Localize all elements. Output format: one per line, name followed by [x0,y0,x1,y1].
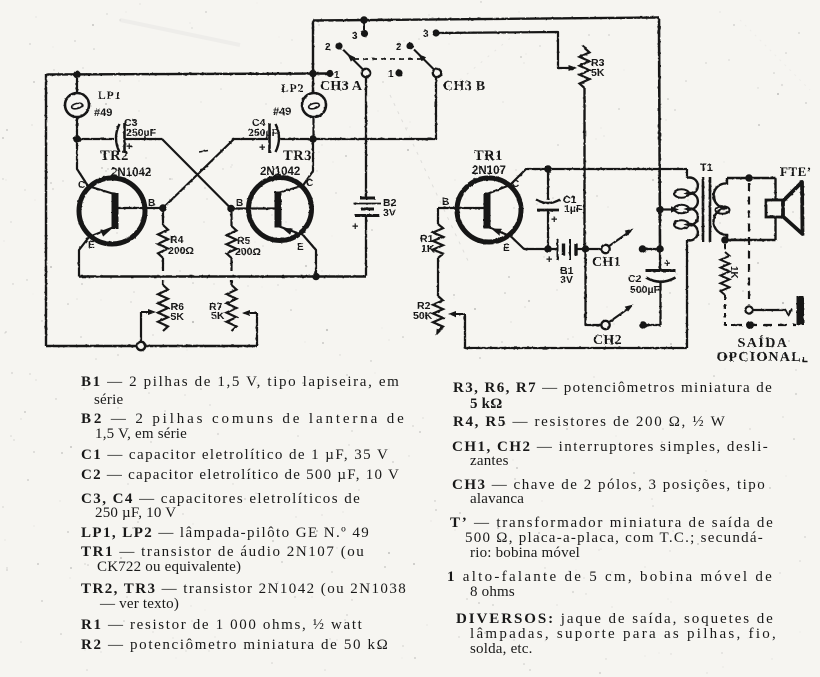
wire: dashed bottom to jack [733,324,796,326]
svg-text:LP1, LP2 — lâmpada-pilôto GE N: LP1, LP2 — lâmpada-pilôto GE N.º 49 [81,525,369,541]
svg-text:LP2: LP2 [281,83,304,95]
svg-text:+: + [352,221,358,233]
wire: top rail from LP2 feed to right corner [313,18,659,21]
svg-text:3V: 3V [383,207,396,219]
svg-text:2N1042: 2N1042 [260,166,300,178]
svg-text:B1 — 2 pilhas de 1,5 V, tipo l: B1 — 2 pilhas de 1,5 V, tipo lapiseira, … [81,374,399,390]
lamp LP2 [302,93,326,139]
node: junction TR2 base [159,204,167,212]
svg-text:OPCIONAL⌞: OPCIONAL⌞ [717,350,810,365]
node: optional output upper contact [745,306,752,313]
svg-text:1: 1 [388,69,394,80]
svg-text:alavanca: alavanca [470,491,524,507]
resistor R5 200 ohm [227,209,237,272]
capacitor C1 1uF [536,169,560,249]
lamp LP1 [65,75,89,140]
wire: TR3 collector node to CH3B wiper [313,77,436,139]
svg-text:DIVERSOS: jaque de saída, soqu: DIVERSOS: jaque de saída, soquetes de [456,611,773,627]
transformer T1 secondary winding [714,178,730,240]
switch CH1 (slide) [589,229,660,254]
svg-text:5K: 5K [211,310,225,322]
svg-text:rio: bobina móvel: rio: bobina móvel [470,545,580,561]
svg-text:FTE’: FTE’ [780,164,812,179]
wire: C4 to TR3 collector node [279,138,313,140]
transformer T1 core [702,177,705,242]
svg-text:+: + [664,258,670,270]
svg-text:200Ω: 200Ω [235,246,261,258]
svg-text:R2 — potenciômetro miniatura d: R2 — potenciômetro miniatura de 50 kΩ [81,637,388,653]
wire: right rail from top corner down to CH1/C2 node [659,19,660,250]
svg-text:250 µF, 10 V: 250 µF, 10 V [95,505,176,521]
wire: bottom-left wiper return [46,345,257,347]
svg-text:série: série [94,392,123,408]
transistor TR3 2N1042 (PNP) [231,178,312,241]
svg-text:R4, R5 — resistores de 200 Ω,: R4, R5 — resistores de 200 Ω, ½ W [453,414,726,430]
node: junction on wiper return wire [137,342,145,350]
svg-text:TR2, TR3 — transistor 2N1042 (: TR2, TR3 — transistor 2N1042 (ou 2N1038 [81,581,406,597]
transistor TR2 2N1042 (PNP) [79,178,163,244]
node: junction center tap [656,206,664,214]
svg-text:2: 2 [396,42,402,53]
capacitor C2 500uF [646,249,676,325]
wire: TR2 base to C4 (cross-coupling diagonal) [163,139,268,208]
wire: jack tip lead with V contact [753,309,787,311]
svg-text:200Ω: 200Ω [168,245,194,257]
svg-text:CH2: CH2 [593,333,622,348]
svg-text:1,5 V, em série: 1,5 V, em série [95,426,187,442]
transistor TR1 2N107 (PNP) [438,178,521,242]
svg-text:TR1: TR1 [474,148,503,164]
wire: secondary top to speaker [727,177,776,179]
svg-text:solda, etc.: solda, etc. [470,641,533,657]
svg-text:T’ — transformador miniatura d: T’ — transformador miniatura de saída de [450,515,773,531]
transformer T1 primary winding [674,169,698,240]
switch CH3 A (pole A, 3 positions) [326,30,370,77]
switch CH2 (slide) [601,305,660,330]
wire: TR2 collector up to node [77,139,88,186]
svg-text:1 alto-falante de 5 cm, bobina: 1 alto-falante de 5 cm, bobina móvel de [447,569,772,585]
svg-text:8 ohms: 8 ohms [470,584,515,600]
svg-text:250µF: 250µF [248,127,279,139]
svg-text:250µF: 250µF [126,127,157,139]
svg-text:B2 — 2 pilhas comuns de lanter: B2 — 2 pilhas comuns de lanterna de [81,411,404,427]
svg-text:T1: T1 [700,162,713,174]
wire: emitter ground bus [79,275,366,277]
node: junction LP1 top [73,71,81,79]
node: junction TR3 collector / LP2 / C4 / CH3B wiper wire [309,135,317,143]
potentiometer R7 5K [227,280,258,346]
speaker FTE (alto-falante) [766,182,803,234]
svg-text:#49: #49 [273,106,291,118]
svg-text:500 Ω, placa-a-placa, com T.C.: 500 Ω, placa-a-placa, com T.C.; secundá- [465,530,763,546]
svg-text:2N107: 2N107 [472,165,506,177]
wire: TR1 collector to transformer primary top [510,169,687,185]
svg-text:5K: 5K [591,67,605,79]
svg-text:B: B [236,198,243,209]
svg-text:1K: 1K [421,243,435,255]
capacitor C3 250uF (coupling TR2 collector to TR3 base) [116,123,125,153]
svg-text:lâmpadas, suporte para as pilh: lâmpadas, suporte para as pilhas, fio, [470,626,776,642]
jack terminal (saida opcional) [797,296,805,325]
node: junction TR3 emitter on bus [312,273,320,281]
node: junction TR3 base [227,205,235,213]
svg-text:CH1: CH1 [592,255,621,270]
svg-text:1K: 1K [728,266,739,280]
wire: TR2 emitter down to bus [79,237,89,277]
wire: top-left horizontal (lamp supply) from left border to CH3A contact 1 [46,74,329,75]
potentiometer R6 5K [141,280,168,346]
svg-text:3V: 3V [560,274,573,286]
svg-text:CH3 B: CH3 B [443,79,485,94]
wire: TR3 emitter down to bus [303,235,316,277]
switch CH3 B (pole B, 3 positions) [395,29,441,77]
svg-text:C2 — capacitor eletrolítico de: C2 — capacitor eletrolítico de 500 µF, 1… [81,467,399,483]
wire: outer left border vertical [45,74,47,346]
scan mark squiggle [199,151,208,153]
battery B1 3V [548,239,585,260]
svg-text:CH3 A: CH3 A [320,79,363,94]
wire: TR1 emitter to B1 node [511,237,548,250]
resistor R4 200 ohm [158,208,168,271]
svg-text:1: 1 [334,70,340,81]
wire: secondary bottom to speaker [727,239,776,241]
node: junction CH3A contact 1 tap [309,70,317,78]
svg-text:E: E [88,240,95,251]
svg-text:+: + [259,142,265,154]
resistor 1K (dashed, optional load) [721,244,734,325]
svg-text:2: 2 [325,42,331,53]
node: junction TR1 emitter / C1 bottom / B1 left [544,245,552,253]
resistor R1 1K [433,208,443,296]
svg-text:LP1: LP1 [98,90,121,102]
wire: CH3A wiper down to battery B2 positive [365,77,367,197]
wire: vertical feed to LP2 and CH3A contact 1 [312,20,314,94]
svg-text:50K: 50K [413,310,433,322]
svg-text:zantes: zantes [470,453,509,469]
wire: C3 to TR3 base (cross-coupling diagonal) [125,139,232,209]
svg-text:3: 3 [352,31,358,42]
svg-text:2N1042: 2N1042 [111,167,151,179]
svg-text:5 kΩ: 5 kΩ [470,396,502,412]
svg-text:TR1 — transistor de áudio 2N10: TR1 — transistor de áudio 2N107 (ou [81,544,364,560]
svg-text:CK722 ou equivalente): CK722 ou equivalente) [97,559,241,575]
wire: center tap to primary [660,208,674,210]
node: junction CH1 right / C2 top / right rail [656,245,664,253]
svg-text:500µF: 500µF [630,284,661,296]
wire: TR3 collector up to node [303,139,313,186]
svg-text:E: E [503,243,510,254]
wire: speaker vertical [774,178,776,240]
node: junction CH3A contact 3 on top rail [360,16,368,24]
svg-text:SAÍDA: SAÍDA [737,334,788,351]
svg-text:#49: #49 [94,107,112,119]
svg-text:+: + [551,214,557,226]
wire: transformer primary bottom to R2 wiper line [686,240,688,348]
svg-text:B: B [442,197,449,208]
node: junction on dashed output line [746,321,754,329]
mechanical link CH3 A-B (dashed) [354,58,424,60]
wire: dashed tap from secondary top [748,183,750,305]
potentiometer R3 5K [580,46,590,250]
svg-text:R3, R6, R7 — potenciômetros mi: R3, R6, R7 — potenciômetros miniatura de [453,380,772,396]
wire: TR2 collector node to C3 [77,138,114,140]
svg-text:— ver texto): — ver texto) [99,596,179,612]
node: junction TR1 collector / C1 top [544,165,552,173]
node: junction B1 right / R3 bottom / CH2 feed [582,245,590,253]
svg-text:B: B [148,198,155,209]
svg-text:3: 3 [423,29,429,40]
svg-text:TR3: TR3 [283,148,312,164]
node: junction secondary top / optional output tap [745,174,753,182]
node: junction TR2 collector / LP1 bottom / C3 [73,135,81,143]
battery B2 3V [354,198,382,277]
capacitor C4 250uF (coupling TR3 collector to TR2 base) [270,123,280,153]
svg-text:5K: 5K [171,311,185,323]
svg-text:E: E [297,242,304,253]
svg-text:1µF: 1µF [564,203,583,215]
potentiometer R2 50K [433,296,687,348]
svg-text:TR2: TR2 [100,148,129,164]
wire: B1 node down to CH2 [586,249,602,325]
node: junction secondary bottom / 1K tap [721,236,729,244]
svg-text:+: + [546,254,552,266]
wire: CH3B contact 3 to R3 wiper [436,32,572,68]
wire: stub to CH3A contact 3 [363,20,365,32]
